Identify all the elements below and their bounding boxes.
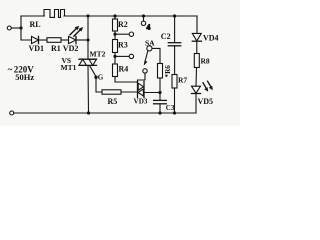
wire R4 bottom to diac top — [115, 77, 138, 83]
wire R8 to VD5 — [195, 68, 198, 87]
wire R2 to tap1 — [114, 31, 116, 40]
wire node C to C3 — [159, 93, 161, 101]
switch SA pivot — [147, 46, 152, 51]
diac VD3 — [138, 82, 145, 98]
switch SA wiper arm — [145, 51, 148, 61]
LED VD5 arrows — [203, 81, 213, 91]
resistor R5 — [102, 90, 121, 94]
wire contact 1 to diac — [138, 73, 146, 82]
capacitor C2 — [168, 43, 180, 46]
resistor R1 — [47, 38, 61, 43]
triac VS — [79, 59, 97, 65]
node junction top wire / contact 4 stub — [142, 14, 145, 17]
terminal top-left — [7, 26, 11, 30]
resistor R7 — [172, 75, 177, 89]
wire SA pivot to R6 — [152, 48, 160, 63]
node junction top wire / VS column — [86, 14, 89, 17]
wire top horizontal — [64, 15, 197, 17]
wire left vertical up — [20, 16, 22, 28]
svg-text:VD4: VD4 — [203, 34, 219, 43]
node junction C3 bottom — [158, 111, 161, 114]
LED VD2 — [69, 36, 77, 43]
switch contact 1 — [143, 69, 147, 73]
wire R5 to diac — [121, 91, 138, 93]
wire left vertical down to diode branch — [21, 28, 32, 40]
node tap2 junction — [113, 55, 116, 58]
svg-text:R1: R1 — [51, 44, 61, 53]
wire node G down — [96, 77, 102, 92]
wire from top terminal to node A — [11, 27, 21, 29]
node junction VS bottom — [87, 111, 90, 114]
svg-text:50Hz: 50Hz — [15, 72, 34, 82]
wire VD4 to R8 — [196, 41, 198, 53]
wire C3 to bottom wire — [159, 104, 161, 113]
wire diac to node C — [144, 92, 160, 94]
diode VD4 — [192, 33, 201, 41]
wire top-left horizontal — [21, 15, 45, 17]
wire bottom horizontal — [14, 112, 196, 114]
wire R7 to bottom wire — [174, 88, 176, 113]
node B junction on VS column — [86, 38, 89, 41]
resistor R6 — [158, 64, 163, 79]
node G junction — [94, 76, 97, 79]
node junction R7 bottom — [173, 111, 176, 114]
svg-text:VD3: VD3 — [134, 98, 148, 106]
svg-text:C2: C2 — [161, 32, 171, 41]
resistor R4 — [113, 64, 118, 77]
load RL heating element — [44, 10, 65, 18]
svg-text:VD1: VD1 — [29, 44, 45, 53]
svg-text:G: G — [98, 74, 104, 82]
svg-text:R5: R5 — [108, 97, 118, 106]
gate lead of VS — [90, 65, 97, 76]
resistor R3 — [113, 40, 118, 53]
svg-text:RL: RL — [30, 20, 41, 29]
wire stub to contact 4 — [143, 16, 145, 21]
node C junction — [158, 91, 161, 94]
wire C2 to R7 — [174, 46, 176, 75]
svg-text:*R6: *R6 — [164, 65, 172, 78]
wire VS column upper — [87, 16, 89, 59]
wire VS column lower (MT1 to bottom wire) — [87, 65, 90, 113]
svg-text:4: 4 — [147, 23, 151, 32]
resistor R2 — [113, 19, 118, 31]
svg-text:R4: R4 — [119, 64, 129, 73]
LED VD5 — [192, 86, 201, 93]
wire VD1 to R1 — [39, 39, 48, 41]
terminal bottom-left — [10, 111, 14, 115]
diode VD1 — [32, 36, 39, 43]
wire tap2 to contact — [115, 55, 129, 57]
svg-text:SA: SA — [145, 38, 155, 47]
wire right column top — [196, 16, 198, 33]
node junction top wire / C2 — [173, 14, 176, 17]
wire to R2 — [114, 16, 116, 19]
svg-text:R2: R2 — [118, 20, 128, 29]
wire VD2 to node B — [76, 39, 88, 41]
svg-text:R8: R8 — [201, 56, 210, 65]
wire R6 to node C — [159, 78, 161, 93]
svg-text:MT1: MT1 — [61, 63, 77, 72]
resistor R8 — [194, 54, 199, 68]
svg-text:VD5: VD5 — [198, 97, 214, 106]
switch contact 2 — [129, 54, 133, 58]
wire R1 to VD2 — [61, 39, 69, 41]
wire VD5 to bottom right corner — [195, 94, 197, 114]
wire tap1 to contact — [115, 33, 129, 35]
svg-text:VD2: VD2 — [63, 44, 79, 53]
svg-text:R7: R7 — [178, 76, 187, 85]
LED VD2 arrows — [70, 26, 83, 36]
svg-text:R3: R3 — [118, 41, 128, 50]
node junction top wire / R2 chain — [113, 14, 116, 17]
node tap1 junction — [113, 33, 116, 36]
node A junction — [19, 26, 22, 29]
switch contact 3 — [129, 32, 133, 36]
wire to C2 — [174, 16, 176, 42]
wire R3 to tap2 — [114, 53, 116, 65]
switch contact 4 — [141, 21, 145, 25]
svg-text:MT2: MT2 — [90, 50, 106, 59]
capacitor C3 — [154, 100, 167, 103]
svg-text:C3: C3 — [166, 104, 175, 112]
